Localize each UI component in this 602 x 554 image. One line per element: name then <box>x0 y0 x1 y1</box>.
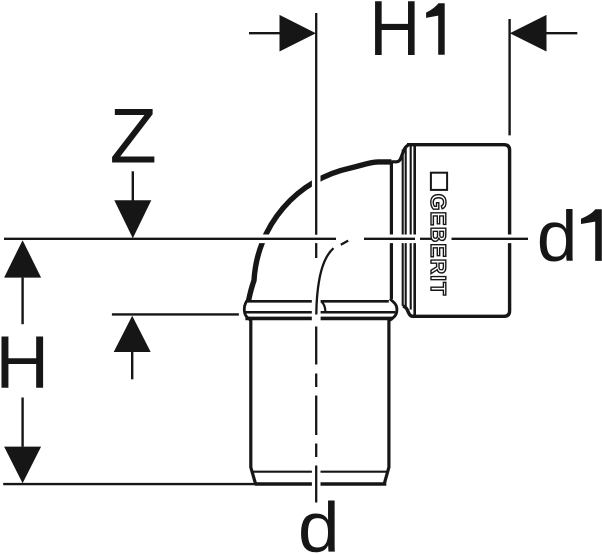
elbow inner-side edge (tube right edge up to socket rings) <box>390 162 393 299</box>
socket crimp ring lines <box>402 150 404 306</box>
Z arrow up tail <box>131 352 133 379</box>
horizontal centerline y=238.8 (axis d1) <box>4 238 528 240</box>
svg-text:H: H <box>369 0 420 72</box>
dimension H1 <box>249 19 577 135</box>
pipe bottom end face <box>255 482 386 485</box>
H arrowhead up <box>4 240 41 277</box>
bead right end cap <box>389 299 397 321</box>
svg-text:Z: Z <box>110 93 157 179</box>
bend axis short dash <box>341 241 348 245</box>
H1 arrowhead right <box>510 15 547 52</box>
bead lower thick line <box>245 317 392 321</box>
vertical centerline x=316.2 (dash-dot) <box>315 13 317 503</box>
H1 extension line right <box>508 19 510 135</box>
Z arrowhead down <box>114 200 151 238</box>
H arrowhead down <box>4 447 41 484</box>
socket transition top S-profile <box>391 145 408 162</box>
svg-text:H: H <box>0 320 49 403</box>
socket left edge <box>413 145 416 317</box>
pipe spigot right edge with chamfer <box>384 320 389 483</box>
pipe spigot left edge with chamfer <box>251 320 256 484</box>
H1 arrowhead left <box>280 15 316 52</box>
chamfer line <box>252 471 388 473</box>
bead mid line <box>245 311 395 314</box>
bead top line <box>246 300 389 303</box>
Geberit logo square <box>431 173 447 190</box>
bead left end cap <box>244 297 251 321</box>
socket body U1 <box>403 145 510 317</box>
H arrow upper tail <box>21 278 23 325</box>
H bottom reference line <box>3 483 256 485</box>
elbow fitting outer arc <box>249 162 392 301</box>
Z arrow down tail <box>132 171 134 201</box>
Z reference line <box>112 313 239 315</box>
svg-text:d: d <box>537 197 578 277</box>
bend axis curve dash <box>316 248 333 314</box>
svg-text:GEBERIT: GEBERIT <box>426 194 450 297</box>
H arrow lower tail <box>21 398 23 447</box>
H1 tail right <box>547 32 578 34</box>
H1 tail left <box>249 32 280 34</box>
bead hook (cylinder edge) <box>321 302 325 312</box>
Z arrowhead up <box>114 316 151 352</box>
svg-text:d: d <box>298 489 340 554</box>
